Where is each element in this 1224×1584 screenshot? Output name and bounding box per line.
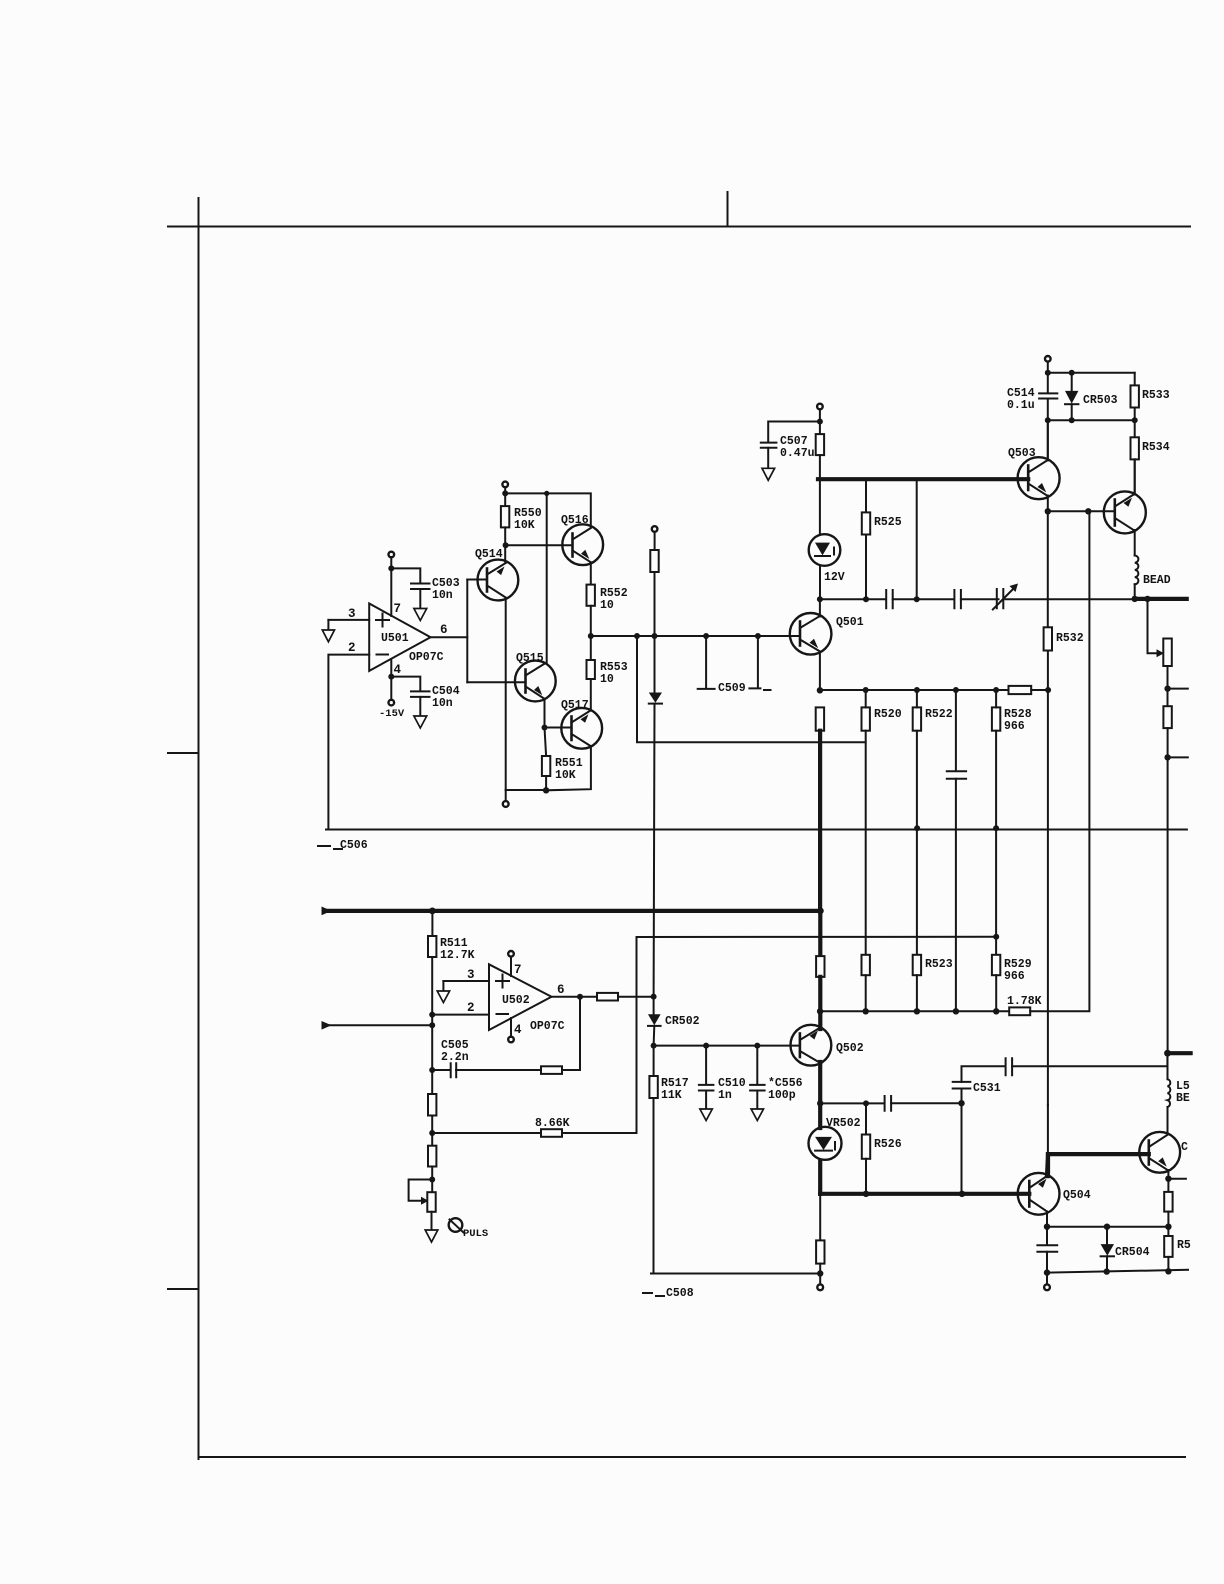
resistor (unlabeled) below Q501 emitter (816, 707, 824, 730)
svg-text:0.1u: 0.1u (1007, 399, 1035, 412)
svg-text:CR502: CR502 (665, 1015, 700, 1028)
svg-text:3: 3 (467, 968, 475, 982)
svg-text:VR502: VR502 (826, 1117, 861, 1130)
wire bead to output row (1134, 584, 1136, 599)
node emitter stub junction (1165, 1176, 1171, 1182)
wire mid column down (654, 572, 656, 693)
wire 8.66K to riser (562, 937, 637, 1133)
capacitor (unlabeled) below Q504 (1046, 1227, 1048, 1244)
svg-text:Q504: Q504 (1063, 1189, 1091, 1202)
resistor R534 (1131, 437, 1139, 459)
resistor R553 10 (587, 660, 595, 679)
wire thick input row (node to R511) (326, 909, 820, 913)
node input wire junction (429, 1022, 435, 1028)
ground chassis line C508 (651, 1273, 820, 1275)
node C507 junction (817, 419, 823, 425)
wire R550 top to Q516 collector (505, 493, 591, 527)
diode CR503 (1071, 373, 1073, 391)
node BEAD bottom junction (1132, 596, 1138, 602)
transistor Q514 (467, 548, 518, 600)
resistor R552 10 (587, 585, 595, 606)
transistor Q517 (545, 699, 603, 749)
resistor (unlabeled) right emitter (1164, 1192, 1172, 1212)
svg-text:C: C (1181, 1141, 1188, 1154)
svg-text:R5: R5 (1177, 1239, 1191, 1252)
wire Q505 collector to R534 (1134, 459, 1136, 494)
resistor R522 (914, 687, 920, 693)
node CR502 / Q502 base junction (651, 1043, 657, 1049)
zener VR502 (809, 1117, 861, 1160)
wire lower rail (1048, 419, 1135, 421)
input arrow left end 2 (322, 1021, 332, 1030)
capacitor (unlabeled) collector row 2 (954, 590, 961, 608)
node C509 right junction (755, 633, 761, 639)
potentiometer body (427, 1192, 435, 1212)
capacitor C510 1n (703, 1043, 709, 1049)
op-amp U501 triangle (369, 604, 430, 671)
wire U502 pin3 (443, 980, 489, 982)
wire thick Q503 base row (818, 477, 1028, 481)
input arrow left end (322, 907, 332, 916)
terminal pin4 supply -15V (389, 700, 395, 706)
wire feedback left (456, 1069, 541, 1071)
wire U501 output pin6 (431, 636, 468, 638)
U502 minus symbol (497, 1013, 509, 1015)
node stub junction 1 (1164, 685, 1170, 691)
ground below pot (425, 1230, 438, 1242)
terminal pin7 supply (389, 552, 395, 558)
wire Q504 collector thick (1047, 1155, 1048, 1176)
U502 pin7 terminal (508, 951, 514, 957)
transistor Q515 (467, 652, 555, 701)
wire L5 to Q5xx collector (1167, 1107, 1169, 1132)
capacitor C509 (right lead) (757, 636, 759, 687)
wire Q5xx emitter (1167, 1170, 1169, 1192)
svg-text:CR504: CR504 (1115, 1246, 1150, 1259)
wire second input row (326, 1024, 432, 1026)
wire Q514 collector to Q516 base (506, 544, 573, 546)
svg-text:-15V: -15V (379, 708, 405, 720)
capacitor C503 (411, 584, 430, 590)
node R525 bottom junction (863, 596, 869, 602)
svg-text:PULS: PULS (463, 1228, 488, 1240)
node Q502 emitter / coupling row (817, 1100, 823, 1106)
svg-text:12V: 12V (824, 571, 845, 584)
terminal top of mid column (652, 526, 658, 532)
transistor Q501 (790, 613, 864, 655)
capacitor C514 0.1u (1039, 393, 1057, 398)
PULS no-connect symbol (449, 1218, 463, 1232)
wire resistor bank top row (820, 689, 1009, 691)
wire R551 bottom (545, 776, 547, 790)
transistor Q516 (561, 514, 603, 565)
svg-text:1.78K: 1.78K (1007, 995, 1042, 1008)
wire trimmer branch (1148, 599, 1159, 653)
page border left lower tick (168, 1288, 198, 1290)
svg-text:100p: 100p (768, 1089, 796, 1102)
resistor R523 (913, 955, 921, 975)
resistor (unlabeled, horizontal) top row right (1009, 686, 1032, 694)
U501 plus symbol (376, 614, 389, 627)
node R552/R553 junction (588, 633, 594, 639)
wire Q516 emitter to R552 (590, 562, 592, 584)
terminal top supply Q501 (817, 404, 823, 410)
svg-text:OP07C: OP07C (409, 651, 444, 664)
wire R517 to C508 line (653, 1098, 655, 1274)
svg-text:U502: U502 (502, 994, 530, 1007)
node Q517 base junction (542, 725, 548, 731)
wire pot bottom (431, 1212, 433, 1230)
wire 8.66K row (432, 1132, 541, 1134)
svg-text:966: 966 (1004, 970, 1025, 983)
ground below C503 (414, 609, 427, 621)
resistor (unlabeled) right column (1163, 706, 1171, 728)
wire thick output row right (1135, 597, 1187, 601)
svg-text:7: 7 (394, 602, 402, 616)
svg-text:11K: 11K (661, 1089, 682, 1102)
wire Q503 emitter (1047, 496, 1049, 512)
terminal bottom of Q514 chain (503, 801, 509, 807)
capacitor (unlabeled) emitter coupling (885, 1096, 892, 1111)
svg-text:2: 2 (467, 1001, 475, 1015)
wire emitter row (1047, 1226, 1168, 1228)
svg-text:U501: U501 (381, 632, 409, 645)
resistor 8.66K (541, 1129, 562, 1137)
wire thick Q504 base row (820, 1192, 1029, 1196)
node C508 junction (817, 1270, 823, 1276)
svg-text:2: 2 (348, 641, 356, 655)
transistor Q504 (1018, 1173, 1091, 1215)
svg-text:10n: 10n (432, 589, 453, 602)
resistor R532 (1047, 511, 1049, 627)
transistor Q503 (1008, 447, 1060, 499)
transistor Q5xx right (1139, 1132, 1188, 1173)
terminal below C508 node (817, 1284, 823, 1290)
terminal below Q504 cap (1044, 1284, 1050, 1290)
svg-text:10: 10 (600, 599, 614, 612)
svg-text:7: 7 (514, 963, 522, 977)
zener 12V in circle (809, 534, 845, 584)
wire riser to thick base row (916, 479, 918, 599)
svg-text:BEAD: BEAD (1143, 574, 1171, 587)
svg-text:Q516: Q516 (561, 514, 589, 527)
diode CR502 (648, 1014, 661, 1025)
capacitor (unlabeled) collector row 1 (886, 590, 893, 608)
svg-text:R526: R526 (874, 1138, 902, 1151)
node 8.66K junction (429, 1130, 435, 1136)
wire Q501 collector (819, 599, 821, 616)
node pot top junction (429, 1177, 435, 1183)
ground at U501 pin 3 (327, 620, 329, 630)
wire terminal to R550 (504, 487, 506, 506)
node R526 top junction (863, 1100, 869, 1106)
wire Q502 bottom resistor (819, 1194, 821, 1241)
capacitor *C556 100p (754, 1043, 760, 1049)
wire to bottom terminal (505, 790, 507, 801)
wire R550 bottom (504, 527, 506, 561)
wire to pot node (431, 1167, 433, 1193)
ground chassis line C506 (326, 829, 1187, 831)
wire Q501 base row (591, 635, 800, 637)
svg-text:2.2n: 2.2n (441, 1051, 469, 1064)
svg-text:C506: C506 (340, 839, 368, 852)
wire R532 column down (1047, 651, 1049, 1106)
wire bottom row to riser (1030, 511, 1089, 1011)
resistor R526 (865, 1103, 867, 1134)
wire Q514/Q515 base column (466, 580, 468, 683)
capacitor C507 0.47u (761, 443, 777, 448)
wire U501 pin4 (390, 659, 392, 700)
svg-text:10K: 10K (514, 519, 535, 532)
op-amp U502 triangle (489, 964, 552, 1030)
node U502 output / CR502 column (651, 994, 657, 1000)
svg-text:BE: BE (1176, 1092, 1190, 1105)
svg-text:1n: 1n (718, 1089, 732, 1102)
wire to C507 (768, 422, 820, 442)
node feedback/C505 junction (429, 1067, 435, 1073)
wire U502 output (552, 996, 598, 998)
wire Q503 collector (1047, 420, 1049, 460)
wire R552 to R553 (590, 606, 592, 660)
node R511 top junction (429, 908, 436, 915)
wire output to CR502 node (618, 996, 654, 998)
resistor (unlabeled) on U502 output (597, 993, 618, 1001)
resistor (unlabeled) mid column (650, 550, 658, 572)
wire U502 pin2 (432, 1014, 489, 1016)
inductor BEAD (1135, 556, 1139, 585)
svg-text:4: 4 (394, 663, 402, 677)
terminal top of R550 (502, 482, 508, 488)
node pin7/C503 junction (388, 565, 394, 571)
wire R511 bottom column (431, 957, 433, 1094)
wire thick Q501/Q502 link (818, 731, 822, 911)
node thick stub junction (1164, 1050, 1171, 1057)
svg-text:10n: 10n (432, 697, 453, 710)
node R526 bottom junction (863, 1191, 869, 1197)
wire to C503 (391, 568, 420, 583)
trimmer resistor body (1163, 639, 1172, 667)
transistor Q502 (791, 1025, 864, 1066)
node C531 column bottom (959, 1191, 965, 1197)
resistor R551 10K (542, 756, 550, 776)
node Q501 collector junction (817, 596, 823, 602)
wire Q502 collector thick (818, 911, 822, 956)
wire emitter bottom row (506, 747, 591, 790)
svg-text:C509: C509 (718, 682, 746, 695)
capacitor C504 (411, 691, 430, 697)
svg-text:12.7K: 12.7K (440, 949, 475, 962)
wire Q502 emitter thick (818, 1062, 822, 1128)
capacitor C505 2.2n (451, 1063, 457, 1077)
wire Q515 collector up (546, 493, 548, 663)
resistor (unlabeled) supply column (816, 434, 824, 455)
resistor (unlabeled) feedback (541, 1066, 562, 1074)
wire U501 pin3 input (328, 619, 369, 621)
page border top tick (727, 192, 729, 226)
node bank top row right end (1045, 687, 1051, 693)
node mid column / base row junction (652, 633, 658, 639)
wire supply column to zener (819, 455, 821, 535)
page border bottom horizontal line (199, 1456, 1186, 1458)
wire zener to Q501 collector node (819, 566, 821, 600)
svg-text:966: 966 (1004, 720, 1025, 733)
svg-text:R532: R532 (1056, 632, 1084, 645)
U501 minus symbol (377, 654, 389, 656)
resistor R520 (863, 687, 869, 693)
wire Q502 base row (654, 1045, 800, 1047)
wire trimmer down (1167, 666, 1169, 706)
svg-text:R525: R525 (874, 516, 902, 529)
svg-text:10: 10 (600, 673, 614, 686)
node Q504 emitter junction (1044, 1224, 1050, 1230)
node L-link corner junction (634, 633, 640, 639)
page border vertical line (198, 198, 200, 1459)
resistor (unlabeled) above pot (428, 1146, 436, 1167)
node CR503 top junction (1069, 370, 1075, 376)
resistor (unlabeled) below R520 (862, 955, 870, 975)
svg-text:Q514: Q514 (475, 548, 503, 561)
wire R553 to Q517 collector (590, 679, 592, 709)
svg-text:10K: 10K (555, 769, 576, 782)
wire Q502 collector thick lower (818, 977, 822, 1029)
resistor 1.78K (1009, 1007, 1030, 1015)
svg-text:R520: R520 (874, 708, 902, 721)
resistor R511 12.7K (431, 911, 433, 936)
node R551 bottom junction (543, 787, 549, 793)
capacitor (unlabeled) on C531 row (1006, 1058, 1013, 1075)
wire bottom right row (1047, 1270, 1188, 1273)
svg-text:R522: R522 (925, 708, 953, 721)
wire Q515 emitter to R551 (545, 728, 547, 757)
transistor Q505 (unlabeled) (1104, 491, 1146, 533)
terminal top supply Q503 (1045, 356, 1051, 362)
resistor R5xx (1164, 1236, 1172, 1257)
wire to C504 (391, 677, 420, 691)
svg-text:R523: R523 (925, 958, 953, 971)
wire L-link base row to emitter row (637, 636, 866, 742)
node stub junction 2 (1164, 754, 1170, 760)
node bank row2 left junction (817, 1008, 823, 1014)
wire Q505 emitter to bead (1134, 530, 1136, 556)
node thick row right end junction (817, 908, 824, 915)
wire emitter coupling row (820, 1102, 883, 1104)
resistor R517 11K (653, 1046, 655, 1076)
wire Q514 emitter down (505, 598, 507, 790)
node Q501 emitter junction (817, 687, 823, 693)
ground below C507 (762, 468, 775, 480)
wire U501 pin7 (390, 557, 392, 616)
inductor L5xx BEAD (1168, 1079, 1171, 1107)
svg-text:Q515: Q515 (516, 652, 544, 665)
node C514 bottom junction (1045, 417, 1051, 423)
capacitor C531 (961, 1090, 963, 1104)
resistor (unlabeled) on Q502 collector column (816, 956, 824, 977)
diode CR504 (1106, 1227, 1108, 1244)
svg-text:Q502: Q502 (836, 1042, 864, 1055)
ground below C504 (414, 716, 427, 728)
svg-text:Q517: Q517 (561, 699, 589, 712)
wire collector row (820, 598, 885, 600)
wire C531 column down (961, 1103, 963, 1194)
node pin2 junction (429, 1012, 435, 1018)
wire top rail (1048, 372, 1135, 374)
svg-text:Q501: Q501 (836, 616, 864, 629)
node riser junction (914, 596, 920, 602)
wire thick Q504 collector to Q5xx base (1048, 1152, 1149, 1156)
svg-text:0.47u: 0.47u (780, 447, 815, 460)
capacitor (unlabeled) bank middle column (953, 687, 959, 693)
node feedback takeoff (577, 994, 583, 1000)
U502 pin4 terminal (510, 1018, 512, 1037)
wire Q515 emitter down (544, 699, 546, 728)
page border top horizontal line (168, 226, 1190, 228)
resistor R528 966 (993, 687, 999, 693)
node Q514 collector junction (503, 542, 509, 548)
resistor R529 966 (992, 955, 1000, 975)
svg-text:R534: R534 (1142, 441, 1170, 454)
svg-text:C508: C508 (666, 1287, 694, 1300)
capacitor C509 (left lead) (705, 636, 707, 687)
resistor (unlabeled) below VR502 (816, 1240, 824, 1263)
resistor R533 (1134, 373, 1136, 386)
node C514 top junction (1045, 370, 1051, 376)
node emitter row right junction (1165, 1224, 1171, 1230)
variable capacitor (trimmer) collector row (997, 589, 1004, 608)
diode mid column (649, 693, 662, 703)
svg-text:8.66K: 8.66K (535, 1117, 570, 1130)
ground at U502 pin3 (442, 981, 444, 991)
svg-text:Q503: Q503 (1008, 447, 1036, 460)
resistor (unlabeled) below C505 node (428, 1094, 436, 1116)
U502 plus symbol (496, 975, 509, 988)
svg-text:6: 6 (440, 623, 448, 637)
page border left mid tick (168, 752, 198, 754)
wire collector row to BEAD node (1005, 598, 1134, 600)
wire 8.66K node row (637, 936, 997, 938)
node Q515 collector junction (544, 491, 549, 496)
potentiometer wiper loop (409, 1180, 433, 1201)
wire feedback down (562, 997, 580, 1070)
node C509 left junction (703, 633, 709, 639)
svg-text:C531: C531 (973, 1082, 1001, 1095)
wire bank bottom row (820, 1010, 1009, 1012)
svg-text:OP07C: OP07C (530, 1020, 565, 1033)
node trimmer branch junction (1144, 596, 1150, 602)
resistor R525 (865, 479, 867, 512)
node Q503 emitter junction (1045, 508, 1051, 514)
svg-text:6: 6 (557, 983, 565, 997)
wire to 8.66K node (431, 1116, 433, 1146)
wire Q504 emitter (1046, 1212, 1048, 1227)
node bottom row junctions (1044, 1269, 1050, 1275)
svg-text:R533: R533 (1142, 389, 1170, 402)
wire terminal to resistor (654, 532, 656, 550)
node riser to 1.78K (1085, 508, 1091, 514)
wire to L5 bead (1167, 1053, 1169, 1079)
wire right column down (1167, 728, 1169, 1053)
wire mid column continues to U502 output node (653, 704, 656, 997)
wire emitter node to Q505 base (1048, 510, 1115, 512)
node C531 bottom junction (958, 1100, 964, 1106)
svg-text:CR503: CR503 (1083, 394, 1118, 407)
node CR504 top junction (1104, 1224, 1110, 1230)
wire C531 row to right column (1012, 1053, 1167, 1066)
wire U501 pin2 input (328, 655, 369, 830)
node R550 top junction (502, 490, 508, 496)
resistor R550 10K (501, 506, 509, 527)
wire Q501 emitter (819, 652, 821, 691)
svg-text:4: 4 (514, 1023, 522, 1037)
